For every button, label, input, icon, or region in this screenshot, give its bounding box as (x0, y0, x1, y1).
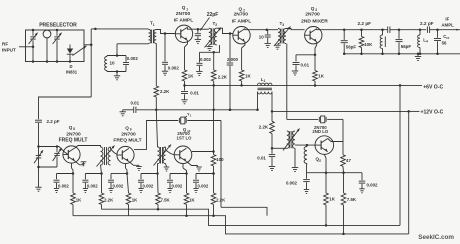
resistor 1K Q11 (324, 173, 329, 205)
label 2.2pF second (420, 21, 434, 26)
label L1 (261, 77, 266, 83)
wire 2nd LO feed staircase (221, 121, 267, 216)
wire tank riser (116, 44, 118, 56)
wire T3 secondary bottom long (286, 44, 288, 120)
label 2.2K L1 (259, 125, 269, 130)
svg-text:IF: IF (445, 17, 449, 22)
wire Q10 emitter line (183, 164, 187, 174)
wire 2.2K to T6 (271, 134, 274, 150)
transistor Q2 (233, 27, 250, 44)
wire filter rail 3 (433, 28, 460, 31)
wire Q8 emitter line (72, 163, 74, 173)
wire 2.2K T2 drop (213, 52, 215, 70)
resistor 7.5K T5 (156, 193, 161, 205)
wire Q3 emitter resistor (314, 55, 316, 71)
wire Q8 emitter ground (75, 161, 86, 166)
ground 0.01 T6 (269, 167, 275, 171)
svg-text:IN831: IN831 (66, 70, 78, 75)
svg-text:3: 3 (282, 23, 284, 27)
svg-text:2: 2 (215, 23, 217, 27)
wire 1K Q9 to rail B (128, 205, 130, 216)
svg-text:SeekIC.com: SeekIC.com (418, 234, 454, 241)
svg-text:IF AMPL: IF AMPL (174, 17, 193, 23)
capacitor 0.01 series (134, 107, 136, 113)
label 2N700 Q9 (121, 132, 136, 138)
label FREQ MULT Q8 (59, 138, 88, 144)
capacitor 0.002 Q8 (54, 172, 75, 192)
wire T1 primary bottom (117, 42, 149, 45)
transistor Q10 (174, 146, 192, 164)
label 2N700 Q2 (234, 12, 249, 18)
svg-text:1: 1 (190, 113, 192, 117)
svg-text:0.002: 0.002 (172, 183, 183, 188)
capacitor 22pF (195, 29, 201, 39)
wire RF input (19, 46, 34, 49)
wire riser to top rail (91, 28, 96, 97)
label Q11 (316, 156, 322, 162)
svg-text:2.2K: 2.2K (160, 89, 170, 94)
capacitor 0.002 Q11 left (303, 173, 310, 194)
resistor 1K Q8 (71, 193, 76, 205)
svg-text:PRESELECTOR: PRESELECTOR (39, 23, 77, 29)
svg-text:2N700: 2N700 (305, 12, 320, 18)
svg-text:1: 1 (186, 7, 188, 11)
label 2N700 Q11 (314, 125, 327, 130)
wire T5 secondary to Q10 (166, 147, 175, 155)
transformer T5 (154, 145, 172, 166)
label FREQ MULT Q9 (113, 138, 141, 144)
label 100 (216, 157, 224, 162)
label 0.01 Q1 (190, 91, 199, 96)
svg-text:0.01: 0.01 (301, 63, 310, 68)
label 1K Q10 (189, 197, 195, 202)
wire Q10 to 1K (186, 174, 188, 194)
label C15 56 (442, 34, 450, 45)
wire T4 to 2.2K (101, 174, 103, 194)
wire IF output arrow (456, 29, 459, 31)
svg-text:D: D (69, 64, 72, 69)
ground W1 (120, 110, 126, 116)
capacitor 56pF second (396, 28, 403, 55)
svg-text:1K: 1K (189, 197, 195, 202)
wire feed to oscillator section (39, 97, 92, 119)
label 2000 (227, 57, 239, 62)
wire Q11 emitter (324, 154, 327, 174)
wire 7.5K to rail A (157, 205, 159, 210)
label IF AMPL output (441, 17, 454, 28)
label 2N700 Q3 (305, 12, 320, 18)
wire T1 secondary top to Q1 base (156, 30, 175, 35)
wire T6 secondary ground (292, 148, 298, 171)
svg-text:1K: 1K (188, 74, 194, 79)
svg-text:RF: RF (2, 42, 8, 47)
variable capacitor C2 preselector (53, 29, 62, 63)
svg-text:2N700: 2N700 (176, 11, 191, 17)
label IF AMPL Q2 (232, 19, 251, 25)
svg-text:0.002: 0.002 (113, 183, 124, 188)
transistor Q8 (63, 146, 80, 163)
capacitor 0.002 Q11 right (359, 173, 366, 193)
svg-text:1K: 1K (76, 197, 82, 202)
svg-text:10: 10 (259, 34, 264, 39)
ground 22pF (195, 39, 201, 43)
transformer T4 (97, 146, 115, 167)
capacitor 0.002 Q9 (108, 172, 128, 192)
wire W1 left (123, 109, 134, 111)
wire IF filter top rail (344, 29, 387, 31)
label +6V O-C (423, 85, 443, 91)
label T3 (280, 21, 285, 27)
svg-text:2.2 pF: 2.2 pF (420, 21, 434, 26)
svg-text:0.002: 0.002 (200, 57, 212, 62)
label 2.2pF osc (47, 119, 60, 124)
resistor 1K Q1 (182, 70, 187, 81)
resistor 100 (211, 152, 216, 167)
wire T2 secondary to Q2 base (217, 28, 233, 35)
label Q2 (239, 7, 246, 13)
wire Q3 emitter (314, 42, 317, 56)
label 2N700 Q10 (177, 131, 190, 136)
svg-text:100: 100 (216, 157, 224, 162)
dot osc1 (37, 166, 40, 169)
ground T3 primary (274, 44, 280, 50)
svg-text:1K: 1K (329, 197, 335, 202)
wire +6V rail (185, 84, 423, 87)
capacitor 0.002 Q10 (167, 172, 188, 192)
wire rail B (73, 214, 409, 235)
wire Q1 collector (187, 27, 199, 30)
transistor Q11 (315, 136, 334, 155)
svg-text:Q: Q (311, 6, 315, 11)
label 1K Q11 (329, 197, 335, 202)
label 10 cap (259, 34, 264, 39)
label 2.2K T2 (218, 75, 228, 80)
inductor L3 filter (380, 28, 385, 55)
wire 0.01 stub (296, 54, 315, 56)
label 2N700 Q8 (66, 132, 81, 138)
capacitor 0.01 Q1 (181, 85, 188, 99)
svg-text:Q: Q (125, 126, 129, 131)
label 2.2K bottom (216, 197, 226, 202)
svg-text:1: 1 (264, 79, 266, 83)
capacitor 2000 Q2 base (227, 34, 234, 112)
wire Q8 to 1K (72, 174, 74, 194)
capacitor 10 (265, 30, 271, 44)
crystal Y1 (179, 117, 186, 124)
wire Q2 emitter (242, 42, 245, 70)
wire 1K Q3 to rail (314, 81, 317, 87)
wire +6V drop (399, 85, 401, 225)
svg-text:1K: 1K (245, 74, 251, 79)
svg-text:15: 15 (446, 36, 450, 40)
label T1 (150, 21, 155, 27)
svg-text:1: 1 (153, 23, 155, 27)
label 22pF (207, 12, 219, 18)
svg-text:Q: Q (182, 5, 186, 10)
label Q1 (182, 5, 189, 11)
label 2N700 Q1 (176, 11, 191, 17)
capacitor 0.002 tank (123, 56, 129, 72)
svg-text:0.002: 0.002 (127, 56, 139, 61)
svg-text:1ST LO: 1ST LO (177, 135, 193, 140)
ground T2 primary (206, 45, 212, 51)
wire Q1 collector to T2 (198, 28, 209, 30)
label Q8 (69, 125, 76, 131)
wire T3 secondary to Q3 base (286, 29, 305, 30)
wire Q8 collector to T4 (75, 146, 101, 148)
ground 0.01 Q1 (181, 100, 187, 104)
wire bias drop to W1 (212, 85, 215, 111)
variable capacitor C1 preselector (29, 29, 38, 63)
wire T5 secondary ground (164, 164, 170, 172)
ground tank (114, 76, 120, 80)
wire Q9 to 1K (127, 174, 129, 194)
dot osc2 top (56, 145, 59, 148)
svg-text:2N700: 2N700 (66, 132, 81, 138)
svg-text:0.01: 0.01 (190, 91, 199, 96)
resistor 1K Q10 (184, 193, 189, 205)
wire 7.5K to outer rail (343, 205, 345, 234)
resistor 2.2K T2 (211, 70, 216, 81)
transformer T6 (283, 129, 300, 151)
svg-text:0.002: 0.002 (168, 66, 180, 71)
svg-text:AMPL: AMPL (441, 22, 454, 27)
label 0.002 Q1 base (168, 66, 180, 71)
svg-text:2.2K: 2.2K (216, 197, 226, 202)
wire tank bottom (107, 70, 126, 76)
wire coil to wire (306, 164, 309, 173)
crystal Y2 (319, 116, 326, 123)
label Y1 (185, 111, 192, 118)
svg-text:9: 9 (130, 128, 132, 132)
label 0.002 tank (127, 56, 139, 61)
svg-text:10: 10 (110, 61, 116, 66)
label +12V O-C (421, 110, 444, 116)
wire Y1 to Q10 (187, 110, 221, 153)
svg-text:22pF: 22pF (207, 12, 219, 18)
label 0.01 series (131, 101, 140, 106)
capacitor 2.2pF second (427, 26, 433, 33)
svg-text:0.01: 0.01 (131, 101, 140, 106)
label 2.2K T4 (104, 197, 114, 202)
label 1K Q3 (318, 74, 324, 79)
inductor 10 (105, 56, 107, 72)
resistor 1K Q3 (313, 71, 318, 82)
ground 0.01 Q3 (292, 71, 298, 75)
label 56pF second (401, 44, 412, 49)
svg-text:INPUT: INPUT (2, 48, 16, 53)
label 10 (110, 61, 116, 66)
wire top rail to T1 (95, 28, 148, 30)
label 2.2pF first (358, 21, 372, 26)
capacitor 0.002 Q1 base (162, 34, 168, 72)
svg-text:FREQ MULT: FREQ MULT (59, 138, 88, 144)
wire L1 left lead (256, 92, 259, 111)
svg-text:0.002: 0.002 (58, 183, 69, 188)
wire T4 secondary to Q9 (111, 147, 118, 155)
svg-text:1K: 1K (318, 74, 324, 79)
svg-text:0.002: 0.002 (87, 183, 98, 188)
label 2.2K T1 (160, 89, 170, 94)
wire crystal Y2 left (287, 118, 318, 120)
wire Q1 emitter (185, 40, 188, 70)
transformer T3 (274, 27, 291, 47)
svg-text:2.2K: 2.2K (104, 197, 114, 202)
capacitor 2.2pF first (388, 26, 394, 33)
wire T2 secondary bottom (200, 45, 220, 54)
wire Q9 emitter line (126, 164, 128, 174)
label PRESELECTOR (39, 23, 77, 29)
svg-text:10K: 10K (364, 42, 373, 47)
label IF AMPL Q1 (174, 17, 193, 23)
transformer T2 (205, 28, 222, 48)
wire Q8 base (37, 145, 68, 154)
label watermark SeekIC.com (418, 234, 454, 241)
capacitor C15 56 (434, 30, 441, 55)
label 0.01 T6 (257, 155, 266, 160)
wire vcap bottoms (39, 166, 58, 168)
wire filter rail 2 (394, 29, 426, 31)
wire preselector wiper arrow (73, 46, 87, 56)
wire IF filter bottom rail (343, 53, 460, 56)
svg-text:2.2K: 2.2K (218, 75, 228, 80)
resistor 1K Q9 (126, 193, 131, 205)
label 56pF first (346, 44, 357, 49)
label 7.5K Q11 (347, 197, 357, 202)
label Q9 (125, 126, 132, 132)
wire tank top (107, 54, 126, 57)
svg-text:8: 8 (73, 127, 75, 131)
wire T5 primary bottom (157, 164, 159, 174)
capacitor 0.002 T4 (82, 172, 102, 192)
label 47 (346, 158, 351, 163)
transistor Q1 (175, 25, 192, 42)
capacitor 0.002 sixth (193, 172, 215, 192)
transistor Q9 (117, 146, 134, 163)
wire T5 to 7.5K (157, 174, 160, 194)
wire emitter bus (307, 172, 363, 174)
capacitor 2.2pF osc (35, 120, 42, 146)
svg-text:7.5K: 7.5K (161, 197, 171, 202)
wire rail A (102, 208, 401, 227)
resistor 7.5K Q11 (341, 173, 346, 205)
svg-text:1K: 1K (132, 197, 138, 202)
wire crystal Y2 right (327, 119, 343, 142)
wire Q11 collector (328, 139, 343, 142)
svg-text:11: 11 (318, 158, 322, 162)
wire 1K Q11 to rail (325, 205, 327, 225)
label 0.002 Q11 left (286, 181, 298, 186)
svg-text:0.01: 0.01 (257, 155, 266, 160)
transistor Q3 (305, 27, 322, 44)
svg-text:47: 47 (346, 158, 351, 163)
label 1K Q9 (132, 197, 138, 202)
resistor 10K (359, 28, 364, 55)
wire 100 chain to 2.2K (213, 174, 215, 194)
wire +12V drop (408, 111, 410, 233)
wire 2.2K to rail (212, 81, 215, 87)
wire Q9 emitter ground (129, 162, 142, 171)
wire T4 primary bottom (101, 165, 102, 174)
capacitor 56pF first (341, 30, 348, 54)
preselector box (26, 30, 85, 62)
wire rail to T3 (267, 29, 278, 31)
label Q3 (311, 6, 318, 12)
svg-text:+6V O-C: +6V O-C (423, 85, 443, 91)
label T2 (213, 21, 218, 27)
variable capacitor osc 1 (34, 147, 43, 168)
wire 2.2K bottom to rail B (213, 205, 215, 216)
svg-text:2.2K: 2.2K (259, 125, 269, 130)
label D1 IN831 (66, 64, 78, 75)
resistor 2.2K T1 (154, 86, 159, 97)
ground 10 cap (265, 43, 271, 47)
svg-text:4: 4 (426, 40, 428, 44)
svg-text:56: 56 (442, 40, 447, 45)
wire 2.2K to rail A (101, 205, 103, 210)
svg-text:56pF: 56pF (346, 44, 357, 49)
svg-text:2N700: 2N700 (121, 132, 136, 138)
inductor L4 (418, 28, 422, 55)
svg-text:Q: Q (69, 125, 73, 130)
wire W1 (136, 109, 257, 112)
wire Q2 collector (245, 28, 268, 31)
label L4 (423, 38, 428, 44)
svg-text:2ND MIXER: 2ND MIXER (301, 19, 328, 25)
label 1K Q1 (188, 74, 194, 79)
svg-text:2N700: 2N700 (234, 12, 249, 18)
resistor 1K Q2 (239, 70, 244, 81)
capacitor 0.01 T6 (269, 148, 276, 166)
svg-text:2.2 pF: 2.2 pF (358, 21, 372, 26)
svg-text:IF AMPL: IF AMPL (232, 19, 251, 25)
svg-text:2ND LO: 2ND LO (312, 129, 328, 134)
capacitor 0.002 T2 (197, 52, 203, 71)
label 0.002 Q11 right (367, 182, 379, 187)
svg-text:2,000: 2,000 (227, 57, 239, 62)
label Q10 (183, 127, 191, 133)
wire 1K Q2 to rail (240, 81, 243, 87)
svg-text:56pF: 56pF (401, 44, 412, 49)
transformer L1 (258, 83, 273, 94)
resistor 47 (341, 142, 346, 167)
resistor 2.2K T4 (99, 193, 104, 205)
wire W1 to T5 (156, 110, 157, 147)
wire T1 secondary bottom (155, 43, 157, 86)
label 2ND MIXER Q3 (301, 19, 328, 25)
wire Q3 collector (317, 28, 346, 31)
svg-text:7.5K: 7.5K (347, 197, 357, 202)
wire 1K Q8 to rail B (72, 205, 74, 216)
inductor Q11 base coil (304, 144, 308, 164)
wire 100 to 2.2K (212, 166, 215, 175)
svg-text:2.2 pF: 2.2 pF (47, 119, 60, 124)
label 10K (364, 42, 373, 47)
svg-text:FREQ MULT: FREQ MULT (113, 138, 141, 144)
label 1K Q8 (76, 197, 82, 202)
wire Q10 collector (192, 151, 214, 153)
svg-text:+12V O-C: +12V O-C (421, 110, 444, 116)
wire 47 to junction (342, 166, 345, 174)
wire +12V rail (272, 110, 410, 113)
svg-text:0.002: 0.002 (367, 182, 379, 187)
wire Q10 emitter ground (187, 162, 202, 172)
wire 1K Q10 to rail B (186, 205, 188, 216)
wire 22pF pointer (200, 18, 209, 31)
resistor 2.2K bottom (211, 193, 216, 205)
ground 0.002 T2 (196, 71, 202, 75)
wire osc ground lead (38, 167, 40, 187)
